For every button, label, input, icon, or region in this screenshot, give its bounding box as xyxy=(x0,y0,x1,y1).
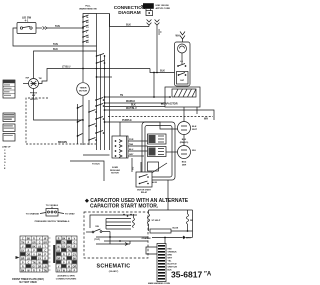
svg-text:CONNECTOR (REF): CONNECTOR (REF) xyxy=(56,278,77,280)
power cord note text xyxy=(156,5,171,10)
svg-text:BUZ: BUZ xyxy=(182,162,187,164)
svg-text:WH: WH xyxy=(192,150,196,152)
svg-text:TO ORANGE: TO ORANGE xyxy=(26,213,40,216)
harness connector pins xyxy=(158,245,165,280)
svg-text:PUR: PUR xyxy=(129,139,134,141)
schematic lower wires xyxy=(109,232,111,245)
svg-text:G: G xyxy=(39,242,41,244)
svg-text:WH/BLK: WH/BLK xyxy=(126,101,136,103)
long wire 2b xyxy=(105,106,166,108)
cabinet rounded box outer xyxy=(142,122,175,180)
svg-text:TO BLK: TO BLK xyxy=(92,163,100,165)
cabinet rounded box inner xyxy=(145,126,172,178)
pressure switch terminal body xyxy=(51,207,53,209)
note box 1 xyxy=(3,113,15,122)
line of console text xyxy=(2,147,11,170)
svg-text:APPVD CORD: APPVD CORD xyxy=(156,7,171,10)
wire capacitor right xyxy=(196,107,198,114)
power cord plug (black block) xyxy=(143,3,154,9)
svg-text:BLUE: BLUE xyxy=(173,228,179,230)
svg-text:BR: BR xyxy=(21,258,25,260)
front timer plate grid xyxy=(20,236,48,272)
svg-text:WHT: WHT xyxy=(186,238,191,240)
svg-text:◆CAPACITOR: ◆CAPACITOR xyxy=(160,103,178,106)
wire into valve connector xyxy=(119,122,121,136)
timer label xyxy=(79,6,96,11)
wire label TAN xyxy=(53,43,58,46)
capacitor note banner xyxy=(84,198,189,210)
svg-text:TN: TN xyxy=(62,242,65,244)
svg-text:RELAY: RELAY xyxy=(141,191,148,194)
svg-text:TIMER: TIMER xyxy=(80,87,87,89)
timer box bottom edge xyxy=(83,154,110,156)
pressure switch xyxy=(29,79,39,89)
long wire 2 xyxy=(105,102,166,104)
svg-text:GY: GY xyxy=(21,250,25,252)
grid side arrow xyxy=(16,256,20,259)
main winding coil xyxy=(133,218,135,228)
part number xyxy=(171,270,212,280)
harness connector body xyxy=(146,247,157,254)
svg-text:BROWN: BROWN xyxy=(58,142,67,144)
svg-text:TAN: TAN xyxy=(55,25,60,28)
svg-text:TN: TN xyxy=(21,242,24,244)
svg-text:ORANGE: ORANGE xyxy=(142,237,152,240)
svg-text:OR: OR xyxy=(27,254,31,256)
schematic top wire xyxy=(90,215,137,228)
svg-text:OR: OR xyxy=(73,266,77,268)
schematic dashed box xyxy=(84,212,148,258)
terminal wires xyxy=(40,213,46,214)
grid cell letters xyxy=(21,238,47,272)
valve connector box xyxy=(112,136,128,158)
water valve solenoid 1 xyxy=(148,134,167,144)
svg-text:MOTOR: MOTOR xyxy=(79,90,88,92)
timer contact B xyxy=(96,62,98,64)
tertiary rail xyxy=(77,104,79,144)
agitate filled cells xyxy=(56,240,76,267)
grid side ticks xyxy=(48,238,51,270)
svg-text:BLK: BLK xyxy=(160,70,165,73)
cabinet dashed boundary right xyxy=(108,116,213,118)
svg-text:LB: LB xyxy=(44,266,47,268)
svg-text:AGITATE & SPIN: AGITATE & SPIN xyxy=(57,274,75,277)
legend table 1 xyxy=(3,80,15,98)
long wire 1 xyxy=(105,96,171,98)
wire pressure switch top BLK xyxy=(34,51,97,79)
schematic lid switch xyxy=(92,231,94,233)
svg-text:O: O xyxy=(4,162,6,164)
svg-text:4-1: 4-1 xyxy=(25,19,29,23)
relay wires xyxy=(131,158,133,172)
orange wire to harness xyxy=(152,237,182,239)
svg-text:BLK: BLK xyxy=(131,105,136,107)
svg-text:GY: GY xyxy=(32,266,36,268)
drive motor box xyxy=(175,42,191,86)
wire between circles xyxy=(183,135,185,146)
svg-text:TN: TN xyxy=(120,95,123,97)
svg-text:VIO: VIO xyxy=(132,166,134,170)
svg-text:WH: WH xyxy=(176,35,180,38)
small block xyxy=(148,162,159,171)
svg-text:(TOP): (TOP) xyxy=(94,239,100,241)
wire BLK main run xyxy=(150,69,175,73)
wire branch down xyxy=(153,73,155,98)
svg-text:BK: BK xyxy=(32,246,36,248)
motor internal contacts xyxy=(180,61,183,63)
start circuit top wire xyxy=(149,209,193,211)
svg-text:TN: TN xyxy=(68,250,71,252)
overload protector xyxy=(148,224,150,231)
svg-text:G: G xyxy=(74,242,76,244)
timer box rails xyxy=(83,14,97,151)
svg-text:TO VIO/BLK: TO VIO/BLK xyxy=(46,205,59,207)
wire TO BLK xyxy=(70,161,104,181)
svg-text:LB: LB xyxy=(27,258,30,260)
svg-text:PURPLE: PURPLE xyxy=(122,119,132,122)
noise filter circle xyxy=(178,122,191,135)
plug pin connector arrows xyxy=(147,20,152,23)
svg-text:BK: BK xyxy=(21,270,25,272)
svg-text:BK: BK xyxy=(62,238,66,240)
svg-text:PRESSURE SWITCH TERMINALS: PRESSURE SWITCH TERMINALS xyxy=(35,220,70,223)
svg-text:ST HELP: ST HELP xyxy=(152,220,161,222)
white lead connector to motor xyxy=(180,32,185,36)
svg-text:BRN: BRN xyxy=(168,255,173,257)
run winding coil xyxy=(186,214,188,224)
svg-text:FULL: FULL xyxy=(85,6,91,8)
svg-text:BK: BK xyxy=(67,246,71,248)
svg-text:ZER: ZER xyxy=(182,164,187,166)
long wire 4 PURPLE xyxy=(105,122,178,129)
svg-text:WH: WH xyxy=(204,117,208,120)
capacitor box xyxy=(165,87,200,107)
svg-text:RD: RD xyxy=(190,220,194,222)
svg-text:LINE OF: LINE OF xyxy=(2,147,11,149)
start winding coil xyxy=(147,214,149,224)
valve wires to cabinet xyxy=(128,140,148,142)
drive motor circle xyxy=(178,44,187,53)
svg-text:GY: GY xyxy=(62,246,66,248)
svg-text:TM: TM xyxy=(39,78,42,80)
svg-text:WARM RINSE SW: WARM RINSE SW xyxy=(79,8,96,11)
wire pressure switch left stub xyxy=(23,83,29,85)
agitate left bar xyxy=(53,245,55,263)
svg-text:BK: BK xyxy=(38,254,42,256)
wire to timer xyxy=(47,27,83,29)
svg-text:WHT: WHT xyxy=(168,258,173,260)
water valve solenoid 2 xyxy=(148,147,167,157)
svg-text:RED: RED xyxy=(168,249,173,251)
plug body xyxy=(146,11,153,16)
console dashed boundary xyxy=(26,98,48,144)
svg-text:GY: GY xyxy=(57,270,61,272)
svg-text:BLU: BLU xyxy=(129,149,134,151)
svg-text:OR: OR xyxy=(38,266,42,268)
svg-text:OR: OR xyxy=(32,242,36,244)
wire from cabinet to start circuit xyxy=(167,180,169,210)
svg-text:″A: ″A xyxy=(204,272,212,278)
svg-text:LT BLU: LT BLU xyxy=(62,66,71,69)
wire white lead from plug xyxy=(156,25,158,72)
svg-text:GRY: GRY xyxy=(129,154,134,156)
svg-text:TO GRAY: TO GRAY xyxy=(65,213,75,216)
svg-text:BLK: BLK xyxy=(53,48,58,51)
note box 3 xyxy=(3,134,15,142)
svg-text:CAPACITOR START MOTOR.: CAPACITOR START MOTOR. xyxy=(90,204,159,210)
diagonal wire xyxy=(147,163,167,176)
motor start relay box xyxy=(136,172,152,187)
wire down to harness connector xyxy=(164,238,166,244)
svg-text:NOTE 2: NOTE 2 xyxy=(30,99,38,101)
svg-text:LB: LB xyxy=(38,246,41,248)
note box 2 xyxy=(3,124,15,132)
wire lid switch left to lower rail xyxy=(13,28,97,46)
svg-text:TAN: TAN xyxy=(129,143,134,146)
wire plug to BLK run xyxy=(126,24,131,27)
wire timer motor top xyxy=(82,70,84,82)
svg-text:BR: BR xyxy=(44,242,48,244)
svg-text:BLK: BLK xyxy=(192,126,197,128)
svg-text:M-Y NOT USED: M-Y NOT USED xyxy=(19,281,37,284)
title CONNECTION DIAGRAM xyxy=(114,5,146,15)
timer contact A xyxy=(96,55,98,57)
wire stub y77 xyxy=(97,76,113,78)
wire pressure switch bottom xyxy=(34,89,84,121)
svg-text:MOTOR: MOTOR xyxy=(111,173,119,175)
secondary rail xyxy=(88,100,90,145)
long wire 3 xyxy=(105,110,215,120)
wire buzzer left xyxy=(166,151,178,153)
svg-text:SOME: SOME xyxy=(112,167,119,169)
wire pressure switch right LT BLU xyxy=(39,69,151,84)
schematic wire bundle xyxy=(106,218,131,220)
svg-text:GY: GY xyxy=(73,254,77,256)
svg-text:DIAGRAM: DIAGRAM xyxy=(118,10,140,15)
motor inner block xyxy=(177,72,189,85)
svg-text:TN: TN xyxy=(44,270,47,272)
svg-text:GRN/YLW: GRN/YLW xyxy=(168,267,177,269)
svg-text:WHT: WHT xyxy=(192,129,198,131)
lower timer contacts xyxy=(88,98,104,141)
connector pins xyxy=(115,140,122,158)
svg-text:OR: OR xyxy=(57,258,61,260)
svg-text:TAN: TAN xyxy=(53,43,58,46)
svg-text:LB: LB xyxy=(68,270,71,272)
timer motor circle xyxy=(77,83,90,96)
schematic label xyxy=(97,264,131,273)
svg-text:TN: TN xyxy=(32,262,35,264)
grid filled cells xyxy=(20,244,47,267)
svg-text:LB: LB xyxy=(57,250,60,252)
agitate grid caption xyxy=(56,274,77,280)
harness wire labels xyxy=(168,249,178,272)
svg-text:BLK: BLK xyxy=(126,24,131,27)
wire timer motor bottom xyxy=(82,96,84,145)
svg-text:35-6817: 35-6817 xyxy=(171,270,202,280)
pressure switch terminals label xyxy=(46,205,59,207)
svg-text:ORN/BLK: ORN/BLK xyxy=(168,252,178,254)
note text xyxy=(30,99,38,101)
svg-text:(35-6817): (35-6817) xyxy=(109,271,119,273)
svg-text:WHT/BLU: WHT/BLU xyxy=(126,108,137,110)
svg-text:USE 120V/60: USE 120V/60 xyxy=(156,5,170,7)
wire lid switch right with connector xyxy=(36,27,42,29)
diamond marker xyxy=(182,236,185,240)
agitate spin grid xyxy=(56,236,77,272)
svg-text:BK: BK xyxy=(73,258,77,260)
svg-text:SCHEMATIC: SCHEMATIC xyxy=(97,264,131,270)
svg-text:O: O xyxy=(4,153,6,155)
agitate cell letters xyxy=(57,238,77,272)
grid caption xyxy=(12,278,44,284)
inline connector xyxy=(43,27,45,30)
capacitor body xyxy=(172,89,196,97)
junction dots xyxy=(123,214,125,216)
lid switch contacts xyxy=(20,27,22,29)
svg-text:BK: BK xyxy=(27,238,31,240)
timer inner contact bank xyxy=(82,15,88,43)
svg-text:REGULAR: REGULAR xyxy=(110,169,120,172)
svg-text:BLU/YLW: BLU/YLW xyxy=(168,264,177,266)
buzzer circle xyxy=(178,146,191,159)
lid switch box SW4-1 xyxy=(17,23,36,34)
svg-text:GY: GY xyxy=(38,258,42,260)
